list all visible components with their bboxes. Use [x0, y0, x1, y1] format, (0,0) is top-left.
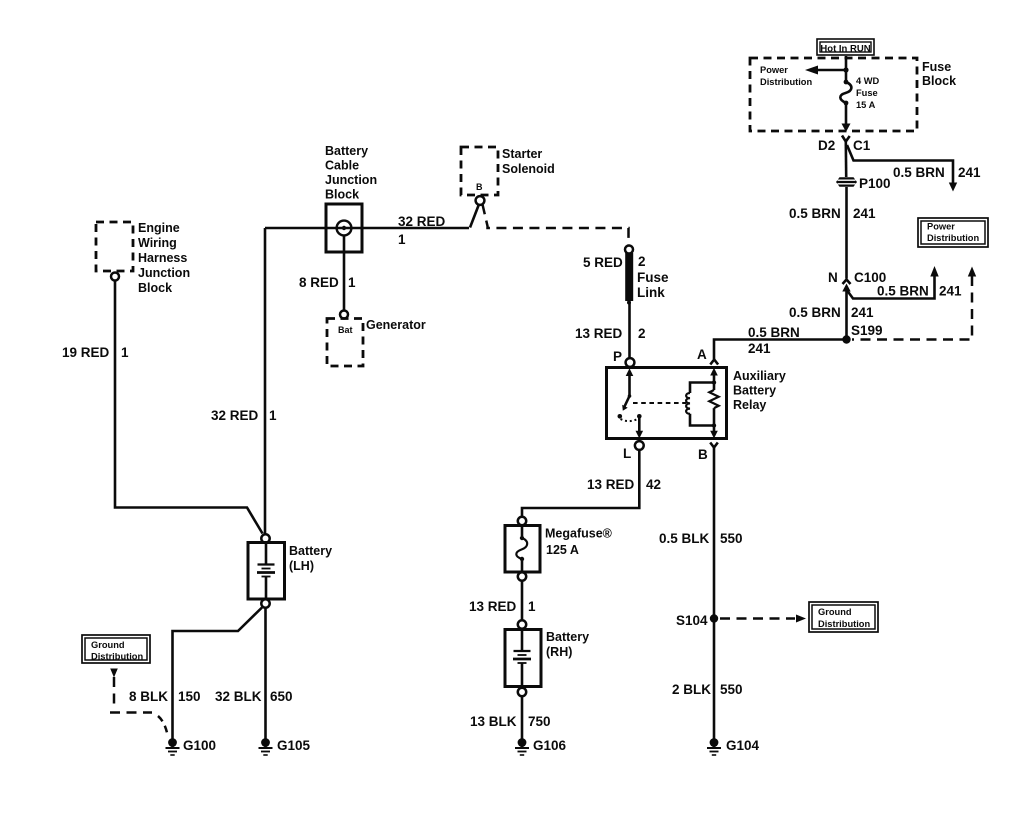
svg-text:Auxiliary: Auxiliary: [733, 369, 786, 383]
svg-text:Distribution: Distribution: [818, 619, 870, 629]
fuse F1 (4WD 15A): [840, 80, 851, 106]
fuse link connector circle: [625, 246, 633, 254]
svg-text:5 RED: 5 RED: [583, 255, 623, 270]
dashed wire ground distribution to G100: [110, 669, 168, 736]
relay control dashed line: [633, 402, 686, 404]
ground G100: [166, 738, 217, 755]
arrow out of relay at L: [636, 416, 644, 438]
wire 32 RED to starter: [470, 206, 479, 228]
Battery RH label: [546, 630, 589, 659]
svg-text:Wiring: Wiring: [138, 236, 177, 250]
Starter Solenoid label: [502, 147, 555, 176]
svg-text:Hot In RUN: Hot In RUN: [820, 44, 870, 55]
svg-text:0.5 BLK: 0.5 BLK: [659, 531, 710, 546]
junction dot at fuse feed: [843, 67, 848, 72]
4 WD Fuse 15 A label: [856, 76, 880, 110]
svg-text:Distribution: Distribution: [91, 652, 143, 662]
engine wiring harness junction block dashed box: [96, 222, 133, 271]
svg-text:32 BLK: 32 BLK: [215, 689, 262, 704]
Engine Wiring Harness Junction Block label: [138, 221, 190, 295]
wire 19 RED: [62, 281, 263, 534]
svg-text:Relay: Relay: [733, 398, 766, 412]
wire B to G104: [659, 448, 743, 740]
wire 32 RED horizontal: [265, 214, 469, 247]
Hot In RUN label box: [817, 39, 874, 55]
coil top junction dot: [712, 380, 716, 384]
8 BLK / 150 labels: [129, 689, 201, 704]
svg-text:Distribution: Distribution: [927, 233, 979, 243]
svg-text:P100: P100: [859, 176, 891, 191]
dashed wire S199 to power distribution (right): [852, 267, 976, 340]
svg-text:Battery: Battery: [733, 384, 776, 398]
Battery LH label: [289, 544, 332, 573]
fuse link labels: [575, 254, 669, 341]
svg-text:Starter: Starter: [502, 147, 542, 161]
svg-text:Block: Block: [922, 74, 956, 88]
arrow into relay at A: [710, 368, 718, 383]
svg-text:Power: Power: [760, 65, 788, 75]
svg-text:Power: Power: [927, 222, 955, 232]
svg-text:Distribution: Distribution: [760, 77, 812, 87]
splice S104 junction dot: [676, 613, 718, 628]
svg-text:32 RED: 32 RED: [398, 214, 446, 229]
resistor (relay): [709, 383, 718, 426]
arrow out of relay at B: [710, 426, 718, 439]
svg-text:550: 550: [720, 531, 743, 546]
svg-text:Battery: Battery: [289, 544, 332, 558]
svg-text:1: 1: [348, 275, 356, 290]
Auxiliary Battery Relay label: [733, 369, 786, 412]
battery RH symbol: [513, 630, 531, 687]
svg-text:550: 550: [720, 682, 743, 697]
wire S199 to relay terminal A: [714, 325, 847, 359]
battery LH bottom circle: [261, 599, 269, 607]
battery LH box: [248, 543, 285, 600]
terminal L circle: [623, 441, 644, 461]
battery LH symbol: [257, 543, 275, 600]
32 BLK / 650 labels: [215, 689, 293, 704]
svg-text:P: P: [613, 349, 622, 364]
svg-text:Generator: Generator: [366, 318, 426, 332]
wire P100 to C100: [789, 187, 876, 279]
wire 8 RED junction block to generator: [299, 236, 356, 311]
svg-text:Ground: Ground: [91, 640, 125, 650]
connector P100: [836, 176, 891, 191]
svg-text:Block: Block: [325, 188, 359, 202]
megafuse element: [516, 526, 527, 573]
svg-text:0.5 BRN: 0.5 BRN: [789, 206, 841, 221]
dashed wire starter to fuse link: [483, 205, 629, 246]
svg-text:0.5 BRN: 0.5 BRN: [893, 165, 945, 180]
svg-text:241: 241: [748, 341, 771, 356]
megafuse bottom circle: [518, 572, 526, 580]
megafuse top circle: [518, 517, 526, 525]
Megafuse label: [545, 527, 613, 558]
wire C100 to S199: [789, 290, 883, 340]
generator dashed box: [327, 319, 363, 367]
svg-text:1: 1: [269, 408, 277, 423]
connector C100: [828, 270, 886, 292]
svg-text:L: L: [623, 446, 631, 461]
svg-text:Fuse: Fuse: [922, 60, 951, 74]
wire 32 RED vertical: [211, 228, 277, 534]
svg-text:150: 150: [178, 689, 201, 704]
coil of relay: [686, 383, 714, 426]
svg-text:4 WD: 4 WD: [856, 76, 880, 86]
svg-text:Solenoid: Solenoid: [502, 162, 555, 176]
arrow into relay at P: [626, 368, 634, 396]
arrow to Power Distribution (left): [805, 66, 846, 75]
terminal P circle: [613, 302, 634, 367]
fuse block dashed box: [750, 58, 917, 131]
terminal B chevron: [698, 443, 718, 463]
battery RH top circle: [518, 620, 526, 628]
svg-text:Megafuse®: Megafuse®: [545, 527, 613, 541]
svg-text:Junction: Junction: [138, 266, 190, 280]
svg-text:C1: C1: [853, 138, 871, 153]
svg-text:13 RED: 13 RED: [469, 599, 517, 614]
ground G106: [515, 738, 567, 755]
svg-text:13 BLK: 13 BLK: [470, 714, 517, 729]
svg-text:13 RED: 13 RED: [575, 326, 623, 341]
svg-text:Fuse: Fuse: [856, 88, 878, 98]
battery RH bottom circle: [518, 688, 526, 696]
Ground Distribution box (left): [82, 635, 150, 663]
svg-text:Battery: Battery: [325, 144, 368, 158]
wire fuse output with arrow at fuse block edge: [842, 103, 851, 132]
svg-text:32 RED: 32 RED: [211, 408, 259, 423]
svg-text:S199: S199: [851, 323, 883, 338]
Power Distribution label (inside fuse block): [760, 65, 812, 87]
svg-text:2: 2: [638, 254, 646, 269]
svg-text:G100: G100: [183, 738, 216, 753]
svg-text:1: 1: [528, 599, 536, 614]
svg-text:241: 241: [851, 305, 874, 320]
svg-text:Engine: Engine: [138, 221, 180, 235]
svg-text:8 RED: 8 RED: [299, 275, 339, 290]
ground G104: [707, 738, 760, 755]
svg-text:D2: D2: [818, 138, 835, 153]
svg-text:Cable: Cable: [325, 159, 359, 173]
Power Distribution box (top right): [918, 218, 988, 247]
svg-text:G105: G105: [277, 738, 311, 753]
Battery Cable Junction Block label: [325, 144, 377, 202]
svg-text:19 RED: 19 RED: [62, 345, 110, 360]
svg-text:S104: S104: [676, 613, 708, 628]
wire battery LH to G105: [264, 608, 267, 739]
svg-text:1: 1: [121, 345, 129, 360]
wire battery RH to G106: [470, 696, 551, 739]
svg-text:G104: G104: [726, 738, 760, 753]
dashed wire S104 to ground distribution: [720, 615, 806, 623]
Ground Distribution box (right): [809, 602, 878, 632]
svg-text:Block: Block: [138, 281, 172, 295]
svg-text:Battery: Battery: [546, 630, 589, 644]
svg-text:B: B: [698, 447, 708, 462]
svg-text:Link: Link: [637, 285, 665, 300]
svg-text:125 A: 125 A: [546, 543, 579, 557]
svg-text:0.5 BRN: 0.5 BRN: [877, 284, 929, 299]
fuse link element (thick): [627, 253, 631, 305]
Fuse Block label: [922, 60, 956, 88]
starter terminal circle: [476, 196, 485, 205]
wire megafuse to battery RH: [469, 581, 536, 620]
terminal A chevron: [697, 347, 718, 365]
connector D2/C1: [818, 136, 871, 178]
svg-text:2: 2: [638, 326, 646, 341]
ground G105: [259, 738, 311, 755]
starter solenoid dashed box: [461, 147, 498, 195]
svg-text:650: 650: [270, 689, 293, 704]
wire battery LH to G100: [173, 608, 263, 740]
svg-text:Ground: Ground: [818, 607, 852, 617]
branch wire C1 to power distribution arrow: [847, 145, 981, 192]
svg-text:2 BLK: 2 BLK: [672, 682, 711, 697]
svg-text:A: A: [697, 347, 707, 362]
branch wire C100 to power distribution arrow: [848, 266, 963, 299]
splice S199 junction dot: [842, 335, 850, 343]
svg-text:13 RED: 13 RED: [587, 477, 635, 492]
wire L to megafuse: [522, 450, 661, 517]
svg-text:Junction: Junction: [325, 173, 377, 187]
svg-text:0.5 BRN: 0.5 BRN: [748, 325, 800, 340]
svg-text:750: 750: [528, 714, 551, 729]
wire from Hot In RUN into fuse block: [845, 56, 848, 82]
svg-text:241: 241: [958, 165, 981, 180]
svg-text:42: 42: [646, 477, 661, 492]
svg-text:B: B: [476, 182, 483, 192]
junction block terminal circle: [337, 221, 352, 236]
coil bottom junction dot: [712, 423, 716, 427]
engine harness terminal circle: [111, 273, 119, 281]
svg-text:G106: G106: [533, 738, 567, 753]
svg-text:Fuse: Fuse: [637, 270, 669, 285]
relay switch: [618, 394, 642, 421]
svg-text:(LH): (LH): [289, 559, 314, 573]
generator terminal circle: [340, 311, 348, 319]
megafuse box: [505, 526, 540, 573]
svg-text:241: 241: [853, 206, 876, 221]
svg-text:Harness: Harness: [138, 251, 187, 265]
battery cable junction block box: [326, 204, 362, 252]
svg-text:8 BLK: 8 BLK: [129, 689, 168, 704]
battery RH box: [505, 630, 541, 687]
svg-text:241: 241: [939, 284, 962, 299]
relay box: [607, 368, 727, 439]
svg-text:Bat: Bat: [338, 325, 353, 335]
battery LH top circle: [261, 534, 269, 542]
svg-text:15 A: 15 A: [856, 100, 876, 110]
svg-text:N: N: [828, 270, 838, 285]
svg-text:0.5 BRN: 0.5 BRN: [789, 305, 841, 320]
svg-text:(RH): (RH): [546, 645, 572, 659]
svg-text:1: 1: [398, 232, 406, 247]
